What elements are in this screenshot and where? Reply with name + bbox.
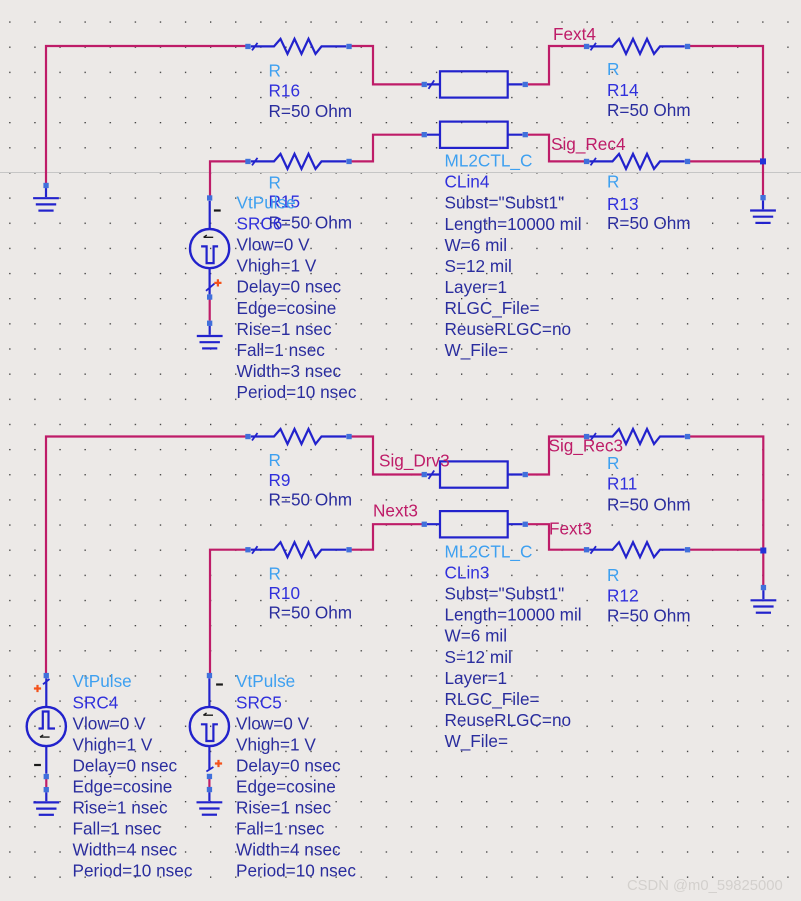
svg-text:VtPulse: VtPulse (73, 671, 132, 691)
svg-text:SRC4: SRC4 (73, 692, 119, 712)
svg-text:Sig_Drv3: Sig_Drv3 (379, 451, 450, 471)
svg-text:SRC6: SRC6 (237, 214, 283, 234)
svg-text:CLin4: CLin4 (445, 172, 490, 192)
svg-text:CLin3: CLin3 (445, 563, 490, 583)
svg-text:Vhigh=1 V: Vhigh=1 V (73, 734, 153, 754)
svg-text:R=50 Ohm: R=50 Ohm (269, 101, 353, 121)
svg-text:R=50 Ohm: R=50 Ohm (269, 490, 353, 510)
svg-text:RLGC_File=: RLGC_File= (445, 298, 540, 318)
svg-text:Vlow=0 V: Vlow=0 V (73, 713, 147, 733)
svg-text:Edge=cosine: Edge=cosine (236, 777, 336, 797)
svg-text:RLGC_File=: RLGC_File= (445, 689, 540, 709)
svg-text:Width=4 nsec: Width=4 nsec (73, 840, 178, 860)
svg-text:Subst="Subst1": Subst="Subst1" (445, 584, 565, 604)
svg-text:Fext4: Fext4 (553, 24, 596, 44)
svg-text:Vlow=0 V: Vlow=0 V (236, 713, 310, 733)
svg-text:VtPulse: VtPulse (236, 671, 295, 691)
svg-text:ML2CTL_C: ML2CTL_C (445, 151, 533, 171)
svg-text:R: R (269, 450, 281, 470)
svg-text:Length=10000 mil: Length=10000 mil (445, 214, 582, 234)
svg-text:S=12 mil: S=12 mil (445, 647, 512, 667)
svg-text:Vhigh=1 V: Vhigh=1 V (236, 734, 316, 754)
svg-text:Delay=0 nsec: Delay=0 nsec (237, 277, 342, 297)
svg-text:Width=3 nsec: Width=3 nsec (237, 361, 342, 381)
svg-text:W_File=: W_File= (445, 340, 509, 360)
svg-text:Edge=cosine: Edge=cosine (73, 777, 173, 797)
svg-text:R=50 Ohm: R=50 Ohm (607, 605, 691, 625)
svg-text:VtPulse: VtPulse (237, 193, 296, 213)
svg-text:Layer=1: Layer=1 (445, 668, 508, 688)
svg-text:R=50 Ohm: R=50 Ohm (607, 494, 691, 514)
svg-text:R: R (607, 59, 619, 79)
svg-text:SRC5: SRC5 (236, 692, 282, 712)
svg-text:Sig_Rec4: Sig_Rec4 (551, 134, 626, 154)
svg-text:Next3: Next3 (373, 501, 418, 521)
svg-text:R10: R10 (269, 583, 301, 603)
svg-text:ReuseRLGC=no: ReuseRLGC=no (445, 319, 572, 339)
svg-text:Vhigh=1 V: Vhigh=1 V (237, 256, 317, 276)
svg-text:R: R (607, 172, 619, 192)
svg-text:W_File=: W_File= (445, 731, 509, 751)
svg-text:ML2CTL_C: ML2CTL_C (445, 542, 533, 562)
svg-text:R: R (607, 565, 619, 585)
svg-text:Period=10 nsec: Period=10 nsec (236, 861, 356, 881)
svg-text:S=12 mil: S=12 mil (445, 256, 512, 276)
svg-text:Subst="Subst1": Subst="Subst1" (445, 193, 565, 213)
svg-text:Edge=cosine: Edge=cosine (237, 298, 337, 318)
svg-text:Rise=1 nsec: Rise=1 nsec (237, 319, 332, 339)
svg-text:ReuseRLGC=no: ReuseRLGC=no (445, 710, 572, 730)
svg-text:R14: R14 (607, 80, 639, 100)
svg-text:R: R (269, 172, 281, 192)
svg-text:W=6 mil: W=6 mil (445, 235, 508, 255)
svg-text:Delay=0 nsec: Delay=0 nsec (73, 755, 178, 775)
svg-text:Fall=1 nsec: Fall=1 nsec (73, 819, 162, 839)
svg-text:R11: R11 (607, 474, 637, 494)
svg-text:Length=10000 mil: Length=10000 mil (445, 605, 582, 625)
svg-text:R=50 Ohm: R=50 Ohm (607, 213, 691, 233)
svg-text:R12: R12 (607, 585, 639, 605)
svg-text:Fall=1 nsec: Fall=1 nsec (237, 340, 326, 360)
svg-text:Fext3: Fext3 (549, 519, 592, 539)
svg-text:R: R (269, 60, 281, 80)
svg-text:R: R (269, 563, 281, 583)
svg-text:Vlow=0 V: Vlow=0 V (237, 235, 311, 255)
svg-text:Rise=1 nsec: Rise=1 nsec (236, 798, 331, 818)
svg-text:R13: R13 (607, 194, 639, 214)
svg-text:R: R (607, 453, 619, 473)
svg-text:R=50 Ohm: R=50 Ohm (607, 100, 691, 120)
svg-text:Layer=1: Layer=1 (445, 277, 508, 297)
svg-text:W=6 mil: W=6 mil (445, 626, 508, 646)
svg-text:Rise=1 nsec: Rise=1 nsec (73, 798, 168, 818)
svg-text:Fall=1 nsec: Fall=1 nsec (236, 819, 325, 839)
svg-text:Period=10 nsec: Period=10 nsec (237, 382, 357, 402)
svg-text:Delay=0 nsec: Delay=0 nsec (236, 755, 341, 775)
svg-text:Width=4 nsec: Width=4 nsec (236, 840, 341, 860)
svg-text:Period=10 nsec: Period=10 nsec (73, 861, 193, 881)
svg-text:CSDN @m0_59825000: CSDN @m0_59825000 (627, 878, 783, 894)
svg-text:R16: R16 (269, 81, 301, 101)
svg-text:R=50 Ohm: R=50 Ohm (269, 602, 353, 622)
svg-text:R9: R9 (269, 470, 291, 490)
